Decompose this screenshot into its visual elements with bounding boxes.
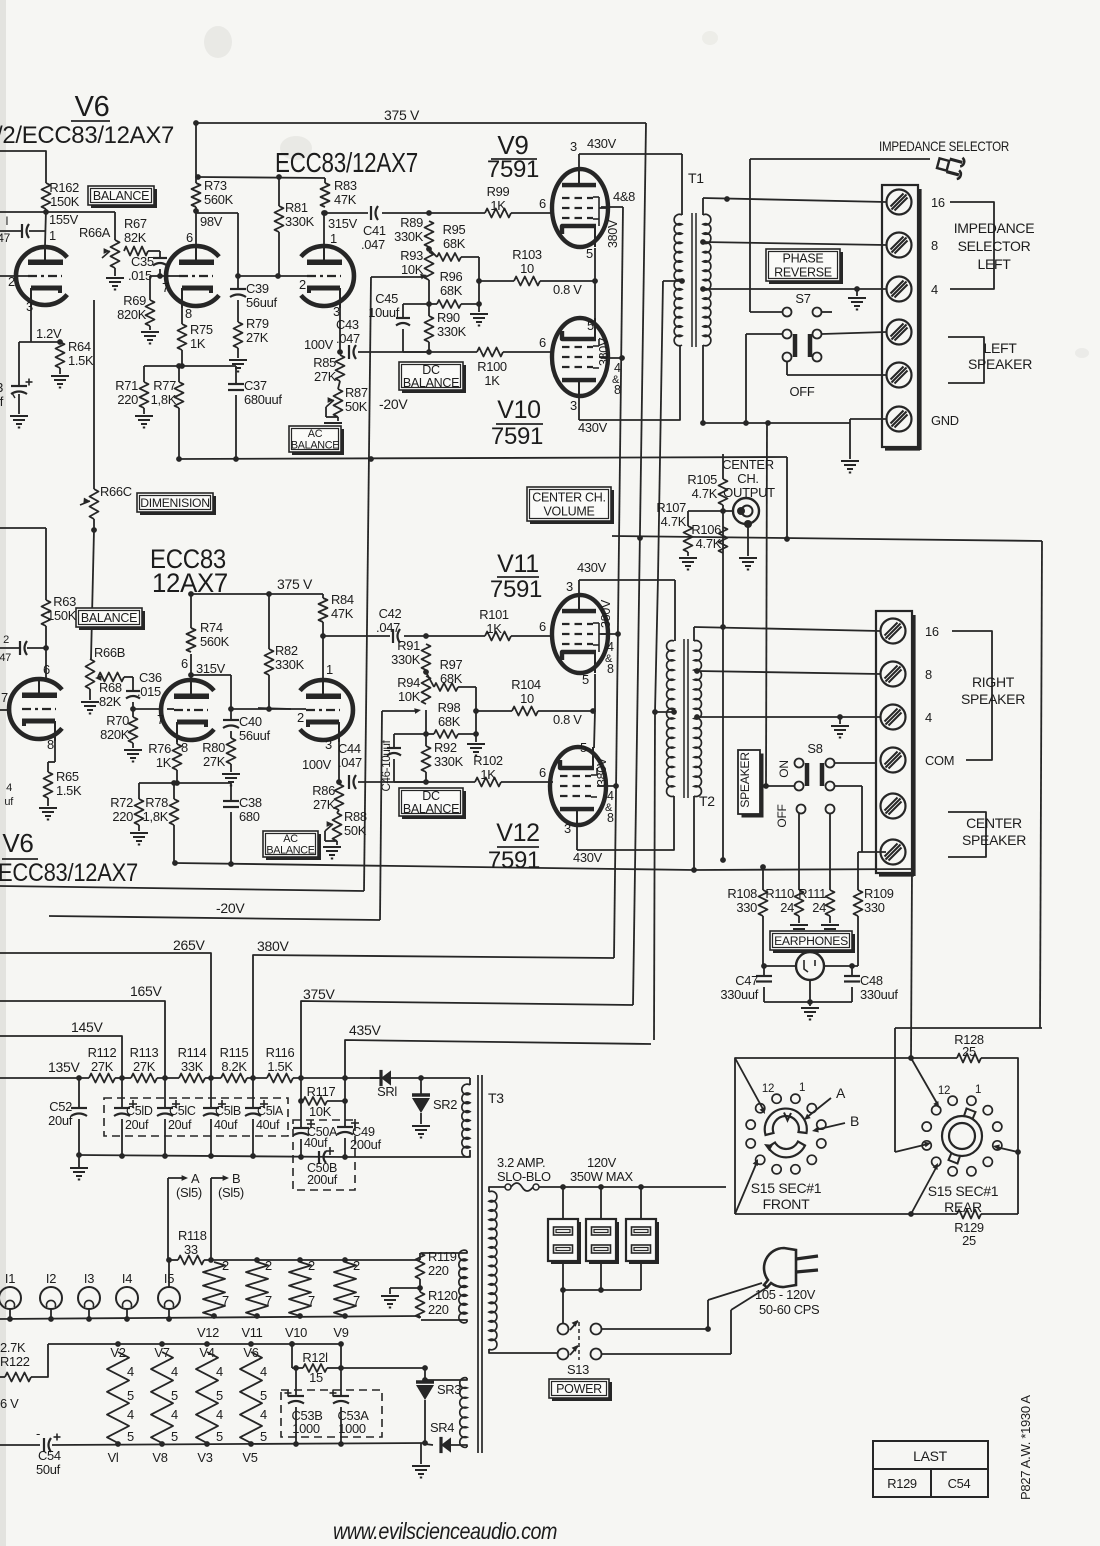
tube V6a	[16, 247, 67, 305]
wire	[429, 249, 437, 257]
svg-text:1K: 1K	[156, 755, 172, 770]
resistor R90	[425, 316, 434, 342]
svg-text:5: 5	[580, 740, 587, 755]
svg-text:430V: 430V	[573, 850, 603, 865]
svg-text:DC: DC	[422, 363, 440, 377]
ground	[51, 375, 69, 377]
svg-text:430V: 430V	[578, 420, 608, 435]
svg-text:R74: R74	[200, 620, 223, 635]
wire cathode	[30, 307, 32, 342]
AC bal wire	[371, 276, 423, 278]
resistor R91	[422, 644, 431, 670]
wire	[391, 1077, 470, 1079]
T1 sec tap 8	[700, 239, 706, 245]
svg-text:Vl: Vl	[108, 1450, 119, 1465]
wire mains top	[539, 1186, 726, 1188]
svg-text:R129: R129	[887, 1476, 917, 1491]
capacitor C33	[11, 385, 27, 387]
resistor R112	[89, 1074, 115, 1083]
ground	[831, 725, 849, 727]
capacitor C53A	[340, 1368, 342, 1396]
tube ECC83d	[300, 680, 353, 740]
capacitor C47	[763, 966, 765, 976]
svg-text:C42: C42	[379, 606, 402, 621]
terminal screw	[887, 277, 912, 302]
wire 375V ch2 bus	[190, 594, 192, 628]
capacitor .047 input	[0, 230, 22, 232]
heater resistor V6V5	[240, 1352, 262, 1443]
wires	[763, 987, 765, 1002]
svg-text:LEFT: LEFT	[983, 340, 1017, 356]
wires jack	[762, 916, 764, 966]
ground	[470, 313, 488, 315]
node	[179, 363, 185, 369]
ground	[412, 1125, 430, 1127]
wire	[178, 366, 180, 382]
bracket impedance left	[950, 202, 994, 289]
svg-text:330K: 330K	[394, 229, 424, 244]
svg-text:5: 5	[216, 1429, 223, 1444]
ground	[848, 297, 866, 299]
svg-text:3: 3	[570, 398, 577, 413]
dc balance box ch1	[402, 365, 466, 393]
svg-text:I4: I4	[122, 1271, 132, 1286]
svg-text:4: 4	[607, 640, 614, 654]
svg-text:4: 4	[216, 1364, 223, 1379]
svg-text:6: 6	[181, 656, 188, 671]
svg-text:C37: C37	[244, 378, 267, 393]
svg-text:R92: R92	[434, 740, 457, 755]
svg-text:R103: R103	[512, 247, 542, 262]
svg-text:135V: 135V	[48, 1059, 80, 1075]
svg-text:220: 220	[428, 1263, 449, 1278]
svg-text:330K: 330K	[434, 754, 464, 769]
svg-text:R101: R101	[479, 607, 509, 622]
svg-text:16: 16	[931, 195, 945, 210]
heater resistor V9	[334, 1262, 356, 1316]
capacitor C39	[237, 276, 239, 289]
power box	[552, 1382, 612, 1401]
wires S13 to plug	[602, 1328, 708, 1330]
wire	[237, 348, 239, 358]
resistor R119R120 connect	[419, 1253, 421, 1260]
svg-text:40uf: 40uf	[256, 1118, 280, 1132]
svg-text:-20V: -20V	[216, 900, 245, 916]
svg-text:7591: 7591	[491, 423, 543, 450]
wire heater bus2	[0, 1316, 420, 1319]
svg-text:V6: V6	[75, 91, 110, 123]
wire from spade	[750, 158, 930, 160]
dashed box C50	[293, 1120, 355, 1190]
svg-text:5: 5	[582, 672, 589, 687]
svg-text:10: 10	[520, 691, 534, 706]
outlet 1	[551, 1222, 581, 1264]
svg-text:4: 4	[614, 361, 621, 375]
svg-text:4: 4	[6, 782, 12, 794]
svg-text:12: 12	[762, 1083, 774, 1095]
svg-text:R67: R67	[124, 216, 147, 231]
svg-text:5: 5	[260, 1429, 267, 1444]
wire	[93, 300, 95, 489]
terminal strip right	[876, 611, 912, 873]
speaker box	[742, 754, 764, 818]
lamp I1	[0, 1287, 21, 1309]
resistor R162	[42, 183, 51, 209]
svg-text:POWER: POWER	[556, 1382, 602, 1396]
svg-text:C5lA: C5lA	[257, 1104, 284, 1118]
capacitor C42	[392, 629, 394, 643]
svg-text:0.8 V: 0.8 V	[553, 712, 582, 727]
wire feedback bottom	[179, 457, 787, 459]
svg-text:S15 SEC#1: S15 SEC#1	[751, 1180, 822, 1196]
svg-text:8: 8	[181, 740, 188, 755]
svg-text:.015: .015	[137, 684, 161, 699]
plate wire	[190, 654, 192, 679]
ground	[130, 832, 148, 834]
wire	[89, 689, 91, 700]
svg-text:R107: R107	[656, 500, 686, 515]
svg-text:R70: R70	[106, 713, 129, 728]
wire to S13	[562, 1290, 564, 1323]
potentiometer R94	[422, 676, 431, 704]
wire	[404, 635, 485, 637]
heater resistor V10	[289, 1262, 311, 1316]
svg-text:DIMENISION: DIMENISION	[140, 496, 209, 510]
svg-text:R79: R79	[246, 316, 269, 331]
svg-text:24: 24	[780, 900, 794, 915]
wire	[29, 230, 46, 232]
resistor R84	[319, 598, 328, 622]
wire	[475, 734, 477, 742]
svg-text:315V: 315V	[328, 216, 358, 231]
capacitor C51D	[121, 1078, 123, 1108]
wire 155V	[0, 211, 46, 213]
terminal screw	[887, 320, 912, 345]
wire	[45, 528, 47, 600]
svg-text:40uf: 40uf	[304, 1136, 328, 1150]
svg-text:2: 2	[299, 277, 306, 292]
svg-text:3: 3	[26, 299, 33, 314]
tube ECC83b	[301, 246, 354, 306]
svg-text:6: 6	[539, 619, 546, 634]
svg-text:47: 47	[0, 231, 11, 245]
svg-text:R85: R85	[313, 355, 336, 370]
resistor R64	[56, 342, 65, 368]
wire	[148, 250, 160, 252]
svg-text:R88: R88	[344, 809, 367, 824]
svg-text:1.5K: 1.5K	[56, 783, 82, 798]
tube V6b	[9, 679, 62, 739]
svg-text:4.7K: 4.7K	[696, 536, 722, 551]
svg-text:I3: I3	[84, 1271, 94, 1286]
wire	[687, 552, 689, 556]
svg-text:R90: R90	[437, 310, 460, 325]
svg-text:DC: DC	[422, 789, 440, 803]
svg-text:820K: 820K	[100, 727, 130, 742]
wire 380V trunk	[614, 207, 623, 958]
capacitor C54	[43, 1438, 45, 1452]
svg-text:I2: I2	[46, 1271, 56, 1286]
svg-text:R100: R100	[477, 359, 507, 374]
svg-text:27K: 27K	[314, 369, 337, 384]
wires outlets	[562, 1187, 564, 1219]
svg-text:330uuf: 330uuf	[720, 987, 758, 1002]
resistor R75	[178, 324, 187, 350]
tube V9	[552, 169, 608, 247]
svg-text:SLO-BLO: SLO-BLO	[497, 1169, 551, 1184]
wire	[511, 635, 553, 637]
ground	[229, 359, 247, 361]
svg-text:220: 220	[112, 809, 133, 824]
svg-text:4: 4	[171, 1364, 178, 1379]
ground	[679, 557, 697, 559]
svg-text:V12: V12	[496, 819, 540, 847]
svg-text:R86: R86	[312, 783, 335, 798]
svg-text:6: 6	[539, 765, 546, 780]
AC bal wire ch2	[382, 710, 418, 712]
svg-text:BALANCE: BALANCE	[291, 440, 339, 452]
wire feedback ch2	[175, 863, 694, 870]
svg-text:SELECTOR: SELECTOR	[958, 238, 1031, 254]
ground	[324, 422, 342, 424]
wire	[124, 676, 133, 678]
svg-text:R83: R83	[334, 178, 357, 193]
wire	[337, 810, 339, 813]
svg-text:R93: R93	[400, 248, 423, 263]
svg-text:R77: R77	[153, 378, 176, 393]
svg-text:50K: 50K	[345, 399, 368, 414]
wire heater bottom bus	[422, 1440, 428, 1446]
capacitor C50A	[300, 1078, 302, 1128]
wire	[503, 351, 553, 353]
svg-text:R64: R64	[68, 339, 91, 354]
svg-text:380V: 380V	[257, 938, 289, 954]
svg-text:R116: R116	[266, 1045, 295, 1060]
svg-text:BALANCE: BALANCE	[81, 611, 137, 625]
svg-text:CENTER CH.: CENTER CH.	[532, 491, 605, 505]
svg-text:EARPHONES: EARPHONES	[774, 934, 848, 948]
svg-text:8: 8	[47, 737, 54, 752]
svg-text:1K: 1K	[480, 767, 496, 782]
heater resistor V4V3	[196, 1352, 218, 1443]
svg-text:R12l: R12l	[302, 1350, 327, 1365]
wire gnd screw	[850, 418, 886, 420]
ground	[739, 557, 757, 559]
wire	[479, 280, 514, 282]
wire	[138, 783, 140, 799]
resistor R73	[192, 183, 201, 207]
svg-text:.047: .047	[376, 620, 400, 635]
dimenision box	[140, 496, 216, 515]
svg-text:PHASE: PHASE	[783, 252, 824, 266]
balance box ch1	[91, 189, 157, 208]
svg-text:8: 8	[185, 306, 192, 321]
svg-text:4: 4	[607, 789, 614, 803]
svg-text:20uf: 20uf	[168, 1118, 192, 1132]
V10 plate wire	[578, 394, 580, 420]
svg-text:3: 3	[325, 737, 332, 752]
svg-text:-20V: -20V	[379, 396, 408, 412]
wire trunk x646	[633, 123, 646, 1005]
wire	[173, 783, 175, 799]
resistor R63	[42, 600, 51, 626]
capacitor C52	[78, 1078, 80, 1108]
wire	[150, 275, 160, 277]
svg-text:1: 1	[330, 231, 337, 246]
svg-text:5: 5	[171, 1429, 178, 1444]
svg-text:BALANCE: BALANCE	[403, 376, 459, 390]
svg-text:R72: R72	[110, 795, 133, 810]
wire	[19, 341, 60, 343]
wire grid	[258, 708, 291, 709]
svg-text:AC: AC	[283, 833, 298, 845]
svg-text:7: 7	[222, 1293, 229, 1308]
svg-text:430V: 430V	[577, 560, 607, 575]
svg-text:SR3: SR3	[437, 1382, 461, 1397]
wire grid wire	[237, 275, 307, 277]
svg-text:R162: R162	[49, 180, 79, 195]
svg-text:27K: 27K	[203, 754, 226, 769]
wire screw5	[787, 374, 886, 376]
switch S13	[558, 1324, 569, 1335]
transformer T3 right winding HV	[469, 1078, 471, 1085]
wire	[594, 281, 596, 319]
T1 sec tap 4	[700, 286, 706, 292]
svg-text:6 V: 6 V	[0, 1396, 19, 1411]
earphone jack	[796, 952, 824, 980]
svg-text:R122: R122	[0, 1354, 30, 1369]
resistor R107	[684, 526, 693, 552]
svg-text:1,8K: 1,8K	[151, 392, 177, 407]
svg-text:CH.: CH.	[737, 471, 759, 486]
svg-text:560K: 560K	[200, 634, 230, 649]
svg-text:LEFT: LEFT	[977, 256, 1011, 272]
svg-text:RIGHT: RIGHT	[972, 674, 1015, 690]
svg-text:200uf: 200uf	[307, 1173, 338, 1187]
wire	[345, 1150, 470, 1157]
svg-text:C48: C48	[860, 973, 883, 988]
wire pot bottom	[114, 268, 116, 276]
frame diagonal front	[735, 1058, 764, 1111]
resistor R78	[170, 799, 179, 825]
ground	[467, 743, 485, 745]
svg-text:265V: 265V	[173, 937, 205, 953]
resistor R100	[477, 348, 503, 357]
resistor R99	[485, 209, 511, 218]
svg-text:R69: R69	[123, 293, 146, 308]
svg-text:C5lC: C5lC	[169, 1104, 196, 1118]
rotary frame	[735, 1058, 957, 1214]
svg-text:1.2V: 1.2V	[36, 326, 62, 341]
svg-text:IMPEDANCE: IMPEDANCE	[954, 220, 1035, 236]
svg-text:4: 4	[127, 1364, 134, 1379]
wire	[428, 280, 430, 316]
svg-text:S7: S7	[795, 291, 810, 306]
svg-text:82K: 82K	[124, 230, 147, 245]
capacitor C37	[235, 366, 237, 384]
ground	[801, 1007, 819, 1009]
svg-text:1,8K: 1,8K	[143, 809, 169, 824]
svg-text:12: 12	[938, 1085, 950, 1097]
svg-text:16: 16	[925, 624, 939, 639]
svg-text:330K: 330K	[391, 652, 421, 667]
resistor R89	[425, 221, 434, 247]
wire R66A top	[114, 212, 116, 240]
resistor R82	[265, 649, 274, 675]
svg-text:S8: S8	[807, 741, 822, 756]
wire	[268, 594, 270, 649]
T2 center tap	[671, 709, 677, 715]
terminal screw	[887, 407, 912, 432]
svg-text:R113: R113	[130, 1045, 159, 1060]
svg-text:8.2K: 8.2K	[221, 1059, 247, 1074]
svg-text:SR4: SR4	[430, 1420, 454, 1435]
resistor R116	[267, 1074, 293, 1083]
wire	[235, 395, 237, 459]
wires	[798, 813, 800, 890]
svg-text:R78: R78	[145, 795, 168, 810]
terminal screw	[881, 748, 906, 773]
terminal screw	[881, 794, 906, 819]
wire lamps	[9, 1309, 11, 1319]
svg-text:5: 5	[127, 1388, 134, 1403]
svg-text:2.7K: 2.7K	[0, 1340, 26, 1355]
svg-text:BALANCE: BALANCE	[266, 845, 314, 857]
capacitor C53B	[295, 1368, 297, 1396]
wire	[237, 300, 239, 322]
ground	[39, 807, 57, 809]
ground	[790, 924, 808, 926]
wire heater bus1	[168, 1259, 178, 1261]
wire cathode ECC83d	[338, 741, 340, 782]
svg-text:33: 33	[0, 380, 3, 395]
resistor R101	[485, 632, 511, 641]
svg-text:C39: C39	[246, 281, 269, 296]
svg-text:A: A	[191, 1171, 200, 1186]
capacitor C51C	[164, 1078, 166, 1108]
wire	[426, 246, 432, 252]
svg-text:330uuf: 330uuf	[860, 987, 898, 1002]
wire y867 to x912	[694, 869, 912, 870]
svg-text:(Sl5): (Sl5)	[218, 1185, 244, 1200]
terminal screw	[887, 233, 912, 258]
svg-text:T2: T2	[699, 793, 715, 809]
svg-text:10uuf: 10uuf	[368, 305, 399, 320]
svg-text:V11: V11	[241, 1325, 262, 1340]
capacitor C40	[230, 709, 232, 720]
wire screw3 ground	[854, 286, 860, 292]
wire y423	[703, 422, 850, 424]
svg-text:R66B: R66B	[94, 645, 125, 660]
svg-text:8: 8	[925, 667, 932, 682]
label B S15	[211, 1177, 227, 1179]
tube V11	[552, 595, 608, 673]
resistor R79	[234, 322, 243, 348]
svg-text:560K: 560K	[204, 192, 234, 207]
svg-text:l: l	[6, 214, 8, 228]
svg-text:REVERSE: REVERSE	[774, 266, 832, 280]
plate	[322, 636, 324, 679]
spade connector icon	[936, 152, 966, 180]
ground	[323, 846, 341, 848]
svg-text:C38: C38	[239, 795, 262, 810]
svg-text:3: 3	[564, 821, 571, 836]
svg-text:100V: 100V	[304, 337, 334, 352]
svg-text:4.7K: 4.7K	[661, 514, 687, 529]
svg-text:1: 1	[799, 1082, 805, 1094]
svg-text:C45: C45	[375, 291, 398, 306]
ground	[821, 924, 839, 926]
